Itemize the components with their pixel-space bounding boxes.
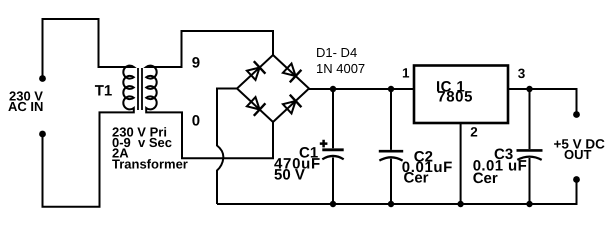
wire AC top to transformer primary top — [43, 19, 132, 79]
bridge rectifier diamond D1-D4 — [237, 55, 309, 122]
transformer T1 core — [138, 68, 142, 110]
svg-text:Transformer: Transformer — [112, 156, 188, 171]
svg-text:Cer: Cer — [404, 169, 429, 186]
label C1 values — [274, 145, 321, 184]
node AC-IN top terminal — [39, 75, 46, 82]
capacitor C3 leads — [529, 89, 531, 204]
diode D lower-right — [283, 95, 302, 114]
diode D lower-left — [247, 97, 266, 116]
svg-text:OUT: OUT — [564, 147, 592, 162]
diode D upper-right — [283, 64, 302, 83]
node junction C1 top — [330, 86, 336, 92]
svg-text:T1: T1 — [95, 83, 113, 100]
label IC1 7805 — [436, 78, 473, 105]
svg-text:3: 3 — [518, 66, 526, 81]
IC1 7805 regulator box — [414, 66, 508, 124]
node ground-side output terminal — [573, 176, 580, 183]
capacitor C2 leads — [390, 89, 392, 204]
label AC input — [8, 88, 43, 114]
node junction C3 bottom — [526, 201, 532, 207]
wire IC pin2 to ground rail — [460, 123, 462, 204]
capacitor C3 plates — [517, 149, 543, 152]
node junction pin2 ground — [457, 201, 463, 207]
transformer T1 secondary winding — [146, 66, 156, 113]
svg-text:D1- D4: D1- D4 — [316, 45, 357, 60]
svg-text:Cer: Cer — [473, 170, 498, 187]
label C2 values — [402, 149, 453, 187]
capacitor C1 plates — [322, 148, 343, 151]
node junction C1 bottom — [330, 201, 336, 207]
node junction C2 top — [388, 86, 394, 92]
node AC-IN bottom terminal — [39, 131, 46, 138]
label transformer ratings — [112, 124, 188, 171]
svg-text:50 V: 50 V — [274, 166, 305, 183]
svg-text:1: 1 — [402, 66, 410, 81]
wire AC bottom to transformer primary bottom — [43, 112, 132, 206]
svg-text:9: 9 — [192, 55, 200, 72]
node junction C2 bottom — [388, 201, 394, 207]
label C3 values — [473, 146, 528, 187]
wire secondary 0 terminal to bridge bottom — [149, 112, 273, 158]
wire ground rail — [217, 180, 577, 204]
wire IC output to +5V terminal — [508, 89, 577, 115]
label D1-D4 — [316, 45, 365, 76]
label +5V DC OUT — [554, 137, 606, 162]
transformer T1 primary winding — [123, 66, 133, 113]
diode D upper-left — [247, 61, 266, 80]
node junction C3 top — [526, 86, 532, 92]
svg-text:7805: 7805 — [437, 89, 473, 106]
wire positive rail bridge to IC input — [309, 88, 414, 90]
svg-text:2: 2 — [470, 124, 478, 139]
svg-text:1N 4007: 1N 4007 — [316, 61, 365, 76]
node +5V top terminal — [573, 111, 580, 118]
capacitor C1 leads — [332, 89, 334, 204]
polarity + of C1 — [320, 140, 328, 148]
wire bridge negative (left vertex) to ground rail with hop — [217, 89, 237, 205]
svg-text:0: 0 — [192, 112, 200, 129]
wire secondary 9 terminal to bridge top — [149, 31, 273, 67]
capacitor C2 plates — [379, 150, 403, 153]
svg-text:AC IN: AC IN — [8, 99, 43, 114]
